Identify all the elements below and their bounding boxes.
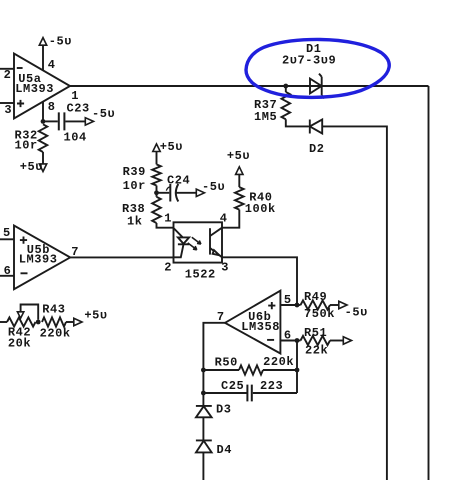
U6b plus input marker	[268, 302, 275, 309]
U5a minus input marker	[17, 67, 23, 69]
wire U5b pin5 input	[0, 238, 14, 240]
svg-text:C25: C25	[221, 379, 244, 393]
svg-text:D3: D3	[216, 403, 232, 417]
U5b minus input marker	[21, 272, 28, 274]
node pin6 junction dot	[295, 338, 300, 343]
op-amp U6b body	[225, 291, 280, 354]
power +5v arrow R43	[74, 318, 82, 325]
svg-text:3: 3	[221, 261, 229, 275]
wire arrow to R40	[238, 174, 240, 187]
svg-text:1522: 1522	[185, 267, 216, 281]
power -5v arrow C23	[85, 118, 93, 125]
power -5v arrow U5a	[39, 38, 46, 46]
resistor R39	[152, 164, 161, 185]
power -5v arrow C24	[196, 189, 204, 196]
svg-text:R51: R51	[304, 326, 327, 340]
svg-text:D2: D2	[309, 142, 325, 156]
svg-text:8: 8	[48, 100, 56, 114]
node pin8 junction dot	[41, 119, 46, 124]
U5b plus input marker	[20, 237, 27, 244]
svg-text:+5υ: +5υ	[160, 140, 183, 154]
resistor R38	[152, 197, 161, 223]
node top-net R37 junction dot	[283, 84, 288, 89]
svg-text:LM393: LM393	[15, 82, 54, 96]
node C25 left junction dot	[201, 391, 206, 396]
annotation blue circle around D1	[246, 39, 389, 97]
diode D3	[196, 405, 212, 407]
svg-text:2: 2	[164, 261, 172, 275]
resistor R43	[42, 317, 66, 326]
wire R43 to +5v arrow	[66, 321, 74, 323]
resistor R50	[203, 369, 239, 371]
resistor R40	[235, 187, 244, 210]
svg-text:LM358: LM358	[241, 320, 280, 334]
svg-text:6: 6	[4, 264, 12, 278]
power +5v arrow R39	[153, 144, 160, 152]
wire C23 to -5v arrow	[65, 120, 85, 122]
svg-text:-5υ: -5υ	[202, 180, 225, 194]
wire arrow to R39	[156, 152, 158, 165]
power arrow R51	[343, 337, 351, 344]
svg-text:1M5: 1M5	[254, 110, 277, 124]
svg-text:6: 6	[284, 329, 292, 343]
svg-text:7: 7	[71, 245, 79, 259]
wire C25 row left	[203, 370, 246, 393]
node R42 R43 junction dot	[36, 320, 41, 325]
svg-text:104: 104	[64, 131, 87, 145]
wire U5b output pin7 to opto pin2	[70, 256, 173, 258]
svg-text:R39: R39	[123, 165, 146, 179]
wire U6b pin5 input	[280, 304, 297, 306]
wire top net right corner	[428, 86, 430, 480]
svg-text:-5υ: -5υ	[92, 107, 115, 121]
svg-text:5: 5	[284, 293, 292, 307]
svg-text:10r: 10r	[15, 138, 38, 152]
U5a plus input marker	[17, 100, 24, 107]
optocoupler U-1522 box	[174, 222, 223, 262]
wire U5a pin3 input	[0, 102, 14, 104]
wire C25 row right	[253, 392, 297, 394]
wire D3 to D4	[202, 417, 204, 440]
node R50 left junction dot	[201, 368, 206, 373]
node R50 right junction dot	[295, 368, 300, 373]
svg-text:+5υ: +5υ	[20, 160, 43, 174]
wire U5a pin4 supply	[42, 45, 44, 71]
svg-text:R43: R43	[42, 303, 65, 317]
wire output U5a pin1 to top net	[70, 85, 429, 87]
svg-text:C24: C24	[167, 174, 190, 188]
potentiometer R42	[7, 317, 36, 326]
R42 wiper	[21, 305, 39, 320]
op-amp U5b body	[14, 226, 70, 290]
svg-text:R49: R49	[304, 290, 327, 304]
capacitor C23 plates	[59, 112, 65, 130]
svg-text:2υ7-3υ9: 2υ7-3υ9	[282, 54, 336, 68]
diode D2	[310, 120, 322, 134]
svg-text:4: 4	[220, 212, 228, 226]
svg-text:R50: R50	[215, 356, 238, 370]
svg-text:2: 2	[4, 68, 12, 82]
wire R37 to D2	[286, 119, 309, 126]
wire R32 to +5v	[42, 152, 44, 164]
wire to D3	[202, 393, 204, 406]
opto light arrows	[192, 237, 201, 244]
svg-text:22k: 22k	[305, 344, 328, 358]
wire pin6 down to R50 row	[296, 341, 298, 394]
svg-text:-5υ: -5υ	[49, 35, 72, 49]
svg-text:100k: 100k	[245, 202, 276, 216]
wire opto pin3 to U6b pin5	[222, 257, 297, 305]
svg-text:750k: 750k	[304, 307, 335, 321]
svg-text:220k: 220k	[263, 355, 294, 369]
wire left to R42	[0, 321, 7, 323]
svg-text:D4: D4	[217, 443, 233, 457]
wire C24 to -5v arrow	[176, 192, 196, 194]
opto LED	[174, 228, 183, 237]
resistor R51	[297, 340, 301, 342]
power +5v arrow down R32	[39, 164, 46, 172]
wire U5b pin6 input	[0, 275, 14, 277]
op-amp U5a body	[14, 54, 70, 119]
capacitor C25 plates	[247, 385, 251, 402]
svg-text:7: 7	[217, 310, 225, 324]
svg-text:4: 4	[48, 58, 56, 72]
U6b minus input marker	[267, 339, 274, 341]
svg-text:+5υ: +5υ	[84, 309, 107, 323]
resistor R32	[39, 124, 48, 152]
diode D4	[196, 439, 212, 441]
node R39 R38 C24 junction dot	[154, 190, 159, 195]
resistor R49	[297, 304, 301, 306]
svg-text:220k: 220k	[40, 327, 71, 341]
wire junction to C24	[157, 192, 170, 194]
wire U6b output pin7	[203, 323, 225, 370]
wire R39 to junction	[156, 186, 158, 197]
svg-text:1: 1	[164, 212, 172, 226]
svg-text:223: 223	[260, 379, 283, 393]
resistor R37	[285, 86, 287, 92]
wire R38 to opto pin1	[157, 223, 174, 228]
svg-text:-5υ: -5υ	[345, 306, 368, 320]
wire R40 to opto pin4	[222, 210, 239, 228]
wire D4 to bottom	[202, 452, 204, 480]
svg-text:10r: 10r	[123, 179, 146, 193]
wire pin8 to C23	[43, 120, 58, 122]
svg-text:+5υ: +5υ	[227, 149, 250, 163]
svg-text:C23: C23	[67, 102, 90, 116]
wire U5a pin8	[42, 102, 44, 122]
svg-text:1k: 1k	[127, 215, 143, 229]
capacitor C24 polarized	[169, 184, 171, 202]
svg-text:5: 5	[3, 226, 11, 240]
svg-text:3: 3	[4, 103, 12, 117]
wire U5a pin2 input	[0, 68, 14, 70]
svg-text:LM393: LM393	[19, 253, 58, 267]
opto phototransistor	[209, 228, 211, 254]
svg-text:20k: 20k	[8, 337, 31, 351]
wire D2 to right vertical	[322, 126, 387, 480]
diode D1 zener	[310, 79, 322, 94]
node pin5 junction dot	[295, 303, 300, 308]
power +5v arrow R40	[236, 167, 243, 175]
wire U6b pin6 input	[280, 340, 297, 342]
power -5v arrow R49	[339, 301, 347, 308]
